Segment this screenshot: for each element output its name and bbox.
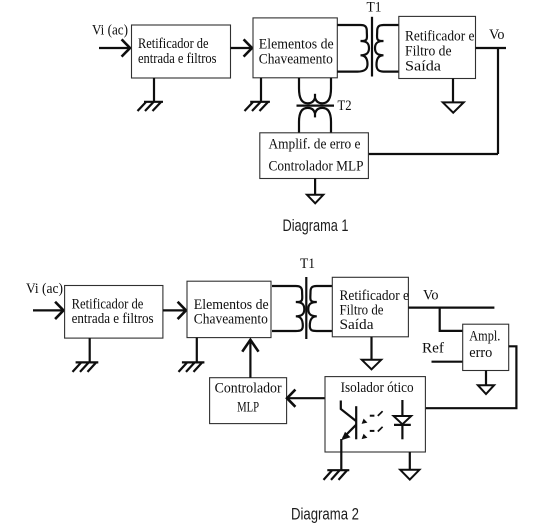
transformer T2 lower cusp tick [314, 113, 316, 117]
ground chassis symbol under box1, diagram 2 [73, 362, 99, 372]
svg-text:Vo: Vo [423, 288, 439, 304]
LED anode lead, diagram 2 [401, 400, 403, 416]
block Retificador de entrada e filtros, diagram 2 [65, 286, 163, 339]
svg-text:Saída: Saída [405, 58, 441, 74]
arrowhead left into Controlador, diagram 2 [287, 391, 295, 406]
transformer T1 secondary winding, diagram 1 [375, 25, 399, 72]
svg-text:Vi (ac): Vi (ac) [26, 281, 63, 297]
block Retificador e Filtro de Saida, diagram 2 [332, 277, 408, 337]
arrowhead box1 to box2, diagram 1 [245, 40, 253, 55]
ground triangle under amplifier box, diagram 1 [307, 195, 323, 204]
svg-text:Ampl.: Ampl. [469, 329, 500, 345]
LED triangle, diagram 2 [394, 416, 412, 424]
wire feedback horizontal, diagram 1 [368, 153, 498, 155]
wire Controlador to Elementos shaft, diagram 2 [249, 341, 251, 378]
transformer T1 secondary winding, diagram 2 [308, 286, 332, 331]
wire output, diagram 2 [408, 307, 494, 309]
wire box1 to box2 shaft, diagram 1 [231, 47, 252, 49]
wire ground stem under Ampl erro, diagram 2 [485, 371, 487, 386]
ground chassis symbol under box2, diagram 2 [179, 362, 205, 372]
wire Ref input, diagram 2 [432, 361, 463, 363]
svg-text:T2: T2 [338, 98, 352, 114]
wire ground stem under box1, diagram 2 [89, 338, 91, 362]
wire ground stem under box3, diagram 1 [452, 79, 454, 103]
svg-text:Vo: Vo [489, 27, 505, 43]
wire LED ground stem, diagram 2 [409, 452, 411, 470]
transformer T2 upper winding, diagram 1 [299, 78, 331, 104]
wire input shaft, diagram 2 [33, 309, 63, 311]
ground chassis symbol under box2, diagram 1 [245, 102, 270, 111]
svg-text:Retificador e: Retificador e [405, 29, 475, 45]
wire branch to error amp, diagram 2 [440, 308, 463, 331]
arrowhead box1 to box2, diagram 2 [179, 303, 187, 318]
svg-text:Chaveamento: Chaveamento [259, 51, 333, 67]
svg-text:Controlador MLP: Controlador MLP [269, 159, 364, 175]
block Elementos de Chaveamento, diagram 1 [253, 18, 337, 78]
ground triangle under box3, diagram 1 [443, 102, 464, 112]
ground triangle under Isolador right, diagram 2 [400, 470, 419, 480]
svg-text:MLP: MLP [237, 400, 259, 416]
svg-text:entrada e filtros: entrada e filtros [72, 311, 154, 327]
svg-text:Filtro de: Filtro de [405, 43, 452, 59]
light arrow 1 diagonal dash, diagram 2 [378, 411, 383, 416]
ground triangle under box3, diagram 2 [362, 360, 381, 370]
phototransistor base bar, diagram 2 [355, 406, 357, 439]
block Retificador de entrada e filtros, diagram 1 [132, 25, 231, 78]
transformer T2 lower winding, diagram 1 [299, 108, 331, 133]
transformer T2 core, diagram 1 [297, 104, 335, 106]
ground chassis symbol under box1, diagram 1 [138, 102, 164, 111]
ground chassis symbol under Isolador left, diagram 2 [324, 470, 350, 480]
wire input shaft, diagram 1 [99, 47, 130, 49]
arrowhead input, diagram 1 [123, 40, 131, 55]
wire ground stem under amplifier box, diagram 1 [314, 179, 316, 195]
svg-text:Diagrama 2: Diagrama 2 [291, 505, 359, 524]
arrowhead input, diagram 2 [56, 303, 64, 318]
LED cathode lead, diagram 2 [401, 425, 403, 439]
wire box1 to box2 shaft, diagram 2 [163, 309, 186, 311]
svg-text:Elementos de: Elementos de [259, 36, 334, 52]
phototransistor emitter arrowhead, diagram 2 [341, 432, 350, 441]
wire feedback from Ampl erro to Isolador, diagram 2 [425, 346, 516, 408]
svg-text:T1: T1 [367, 0, 382, 15]
light arrow 2 horizontal dash, diagram 2 [370, 430, 375, 432]
wire ground stem under box2, diagram 2 [196, 338, 198, 362]
block Ampl erro, diagram 2 [463, 324, 509, 370]
svg-text:T1: T1 [300, 256, 315, 272]
transformer T1 primary winding, diagram 2 [272, 286, 304, 331]
wire ground stem under box1, diagram 1 [153, 78, 155, 102]
svg-text:Retificador de: Retificador de [138, 36, 209, 52]
transformer T1 core, diagram 2 [305, 277, 307, 339]
transformer T2 upper cusp tick [314, 94, 316, 98]
LED cathode bar, diagram 2 [394, 424, 411, 426]
wire output, diagram 1 [476, 47, 507, 49]
svg-text:Retificador e: Retificador e [340, 288, 410, 304]
block Amplif de erro e Controlador MLP, diagram 1 [260, 133, 369, 179]
light arrow 1 horizontal dash, diagram 2 [370, 415, 375, 417]
light arrow 2 head, diagram 2 [362, 434, 368, 439]
svg-text:Isolador ótico: Isolador ótico [341, 380, 414, 396]
light arrow 1 head, diagram 2 [362, 419, 368, 424]
svg-text:Retificador de: Retificador de [72, 296, 144, 312]
ground triangle under Ampl erro, diagram 2 [478, 385, 494, 394]
arrowhead up into Elementos, diagram 2 [243, 340, 258, 351]
svg-text:Diagrama 1: Diagrama 1 [283, 216, 349, 235]
phototransistor emitter, diagram 2 [343, 425, 356, 438]
svg-text:Amplif. de erro e: Amplif. de erro e [269, 137, 361, 153]
wire ground stem under box3, diagram 2 [370, 337, 372, 360]
wire Isolador to Controlador shaft, diagram 2 [288, 397, 325, 399]
phototransistor collector lead, diagram 2 [341, 401, 356, 422]
wire ground stem under box2, diagram 1 [260, 78, 262, 102]
transformer T1 core, diagram 1 [371, 17, 373, 77]
light arrow 2 diagonal dash, diagram 2 [378, 427, 383, 432]
block Retificador e Filtro de Saida, diagram 1 [399, 16, 476, 78]
svg-text:Controlador: Controlador [215, 381, 282, 397]
svg-text:entrada e filtros: entrada e filtros [138, 51, 217, 67]
svg-text:Saída: Saída [340, 317, 374, 333]
svg-text:Vi (ac): Vi (ac) [92, 22, 128, 38]
block Controlador MLP, diagram 2 [210, 378, 287, 424]
transformer T1 primary winding, diagram 1 [337, 25, 369, 72]
svg-text:erro: erro [469, 345, 492, 361]
svg-text:Elementos de: Elementos de [194, 297, 269, 313]
svg-text:Ref: Ref [422, 340, 444, 356]
block Isolador otico, diagram 2 [325, 377, 425, 452]
svg-text:Chaveamento: Chaveamento [194, 312, 268, 328]
block Elementos de Chaveamento, diagram 2 [187, 281, 271, 337]
phototransistor emitter lead to ground, diagram 2 [340, 439, 342, 470]
wire feedback drop, diagram 1 [497, 48, 499, 154]
